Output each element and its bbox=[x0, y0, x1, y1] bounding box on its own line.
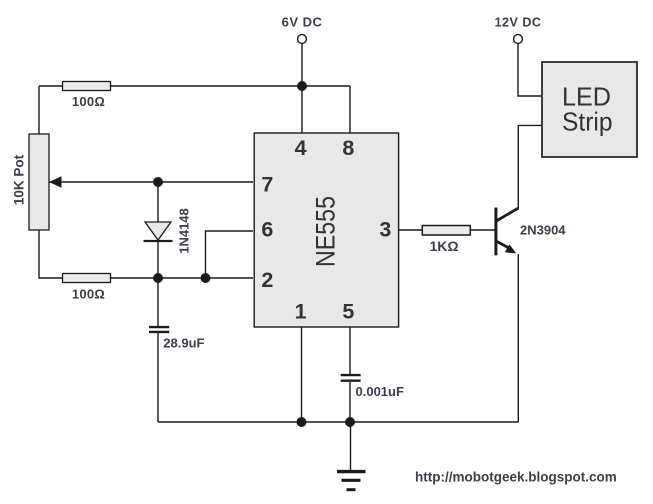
svg-text:5: 5 bbox=[342, 300, 354, 324]
svg-text:0.001uF: 0.001uF bbox=[356, 384, 404, 399]
svg-text:28.9uF: 28.9uF bbox=[163, 336, 204, 351]
svg-text:1: 1 bbox=[295, 300, 307, 324]
terminal 12V DC bbox=[514, 35, 523, 44]
wire top rail left segment bbox=[39, 85, 63, 87]
potentiometer 10K Pot bbox=[29, 134, 49, 230]
wire diode anode bbox=[157, 182, 159, 222]
svg-text:NE555: NE555 bbox=[311, 196, 341, 267]
svg-text:2: 2 bbox=[261, 268, 273, 292]
svg-text:1N4148: 1N4148 bbox=[177, 208, 192, 254]
wiper arrow bbox=[49, 176, 62, 187]
transistor Q1 2N3904 bbox=[496, 208, 519, 256]
svg-text:100Ω: 100Ω bbox=[72, 94, 105, 109]
diode D1 1N4148 bbox=[144, 222, 173, 241]
wire emitter down bbox=[517, 254, 519, 422]
wire to pin 4 bbox=[301, 86, 303, 133]
svg-text:6: 6 bbox=[261, 218, 273, 242]
ground bbox=[337, 422, 366, 490]
wire bottom-left rail bbox=[39, 230, 63, 278]
wire diode cathode bbox=[157, 242, 159, 278]
node wiper junction bbox=[153, 177, 163, 187]
wire ground bus bbox=[158, 421, 518, 423]
node junction pin6 drop bbox=[201, 273, 211, 283]
wire 6V terminal to junction bbox=[301, 43, 303, 86]
IC U1 NE555 body bbox=[254, 133, 398, 327]
wire to capacitor C1 bbox=[157, 278, 159, 326]
wire pin 3 bbox=[399, 229, 423, 231]
wire pin 5 bbox=[349, 327, 351, 374]
wire top rail right segment bbox=[111, 85, 351, 87]
wire base bbox=[470, 229, 495, 231]
svg-text:1KΩ: 1KΩ bbox=[429, 238, 458, 254]
svg-text:Strip: Strip bbox=[562, 106, 613, 136]
node V+ junction bbox=[297, 81, 307, 91]
wire left rail upper bbox=[38, 86, 40, 134]
svg-text:7: 7 bbox=[261, 172, 273, 196]
wire pin 6 bbox=[206, 231, 254, 278]
terminal 6V DC bbox=[298, 35, 307, 44]
svg-text:10K Pot: 10K Pot bbox=[12, 154, 27, 205]
resistor R1 100ohm top bbox=[63, 82, 111, 91]
svg-text:2N3904: 2N3904 bbox=[520, 223, 566, 238]
node junction pin1 bbox=[297, 417, 307, 427]
wire capacitor C2 to bus bbox=[349, 382, 351, 422]
wire 12V to LED strip bbox=[518, 43, 542, 96]
wire to pin 8 bbox=[349, 86, 351, 133]
resistor R3 1K bbox=[422, 226, 470, 236]
svg-text:http://mobotgeek.blogspot.com: http://mobotgeek.blogspot.com bbox=[415, 470, 617, 485]
wire pin 2 row bbox=[111, 277, 254, 279]
resistor R2 100ohm bottom bbox=[63, 274, 111, 283]
svg-text:12V DC: 12V DC bbox=[495, 15, 542, 29]
capacitor C1 28.9uF bbox=[149, 327, 169, 332]
wire wiper to pin 7 bbox=[49, 181, 253, 183]
svg-text:3: 3 bbox=[379, 218, 391, 242]
node junction ground bbox=[345, 417, 355, 427]
svg-text:6V DC: 6V DC bbox=[282, 14, 323, 29]
wire capacitor C1 to ground bus bbox=[157, 333, 159, 422]
svg-text:4: 4 bbox=[295, 136, 307, 160]
svg-text:100Ω: 100Ω bbox=[72, 286, 105, 301]
wire pin 1 bbox=[301, 327, 303, 422]
capacitor C2 0.001uF bbox=[341, 375, 361, 381]
LED Strip box bbox=[542, 62, 637, 157]
wire LED strip to collector bbox=[518, 125, 542, 208]
node junction diode bottom bbox=[153, 273, 163, 283]
svg-text:8: 8 bbox=[342, 136, 354, 160]
